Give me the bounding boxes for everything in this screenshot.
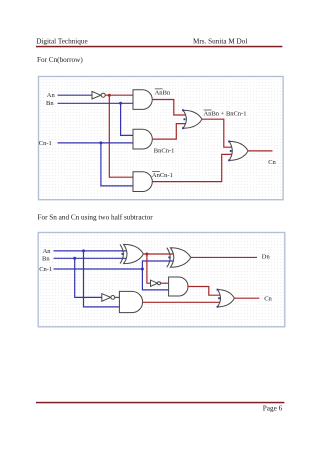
junction on Cn-1 net	[141, 268, 144, 271]
inverter U1	[92, 91, 105, 99]
svg-text:For Sn and Cn using two half s: For Sn and Cn using two half subtractor	[38, 214, 154, 222]
pin marks OR2	[228, 141, 230, 143]
footer rule	[36, 402, 284, 404]
svg-text:Cn-1: Cn-1	[39, 266, 52, 273]
svg-text:AnBn: AnBn	[155, 90, 171, 97]
junction on An net	[82, 249, 85, 252]
label AnBn	[155, 89, 171, 97]
wire U2 out to AND4	[115, 296, 120, 298]
AND gate G9	[169, 277, 188, 296]
svg-text:Bn: Bn	[46, 100, 54, 107]
svg-text:Bn: Bn	[42, 255, 50, 262]
wire XOR1 branch to inverter U3	[147, 254, 151, 283]
wire Bn branch to inverter U2	[75, 258, 102, 297]
junction on Bn net	[73, 257, 76, 260]
wire G8 out to OR3 bottom	[143, 301, 222, 303]
AND gate G1	[133, 90, 152, 110]
wire Bn to AND1	[58, 102, 134, 104]
wire XOR1 out to XOR2	[143, 253, 174, 255]
svg-text:Cn: Cn	[264, 295, 272, 302]
wire G2 out to OR1	[152, 124, 188, 140]
wire Cn-1 trunk	[54, 268, 143, 270]
wire Bn to XOR1	[54, 257, 128, 259]
wire Bn branch to AND2	[121, 103, 133, 135]
junction on XOR1 out	[145, 253, 148, 256]
wire Cn-1 branch to XOR2	[142, 261, 174, 269]
wire G9 out to OR3 top	[188, 287, 222, 296]
OR gate G10	[218, 290, 235, 307]
wire Cn output	[248, 150, 272, 152]
pin marks OR3	[217, 289, 219, 291]
svg-text:Cn: Cn	[268, 159, 276, 166]
wire Cn-1 branch to AND3	[101, 143, 133, 186]
wire Dn output	[191, 256, 257, 258]
wire G3 out to OR2 bottom	[152, 154, 233, 181]
wire Cn-1 to AND2	[58, 142, 134, 144]
XOR gate G6	[120, 244, 143, 263]
svg-text:An: An	[43, 248, 52, 255]
wire OR1 out to OR2 top	[202, 119, 233, 147]
wire An branch to AND4	[84, 251, 120, 307]
svg-text:Digital Technique: Digital Technique	[36, 37, 87, 45]
svg-text:Dn: Dn	[262, 253, 271, 260]
svg-text:Mrs. Sunita M Dol: Mrs. Sunita M Dol	[193, 37, 247, 45]
wire NOT-An branch down to AND3	[109, 95, 133, 177]
XOR gate G7	[167, 248, 191, 268]
svg-text:BnCn-1: BnCn-1	[154, 147, 175, 154]
OR gate G4	[183, 110, 202, 128]
svg-text:An: An	[47, 92, 56, 99]
wire Cn-1 branch to AND5	[142, 269, 168, 290]
label AnCn-1	[152, 172, 173, 180]
AND gate G8	[119, 291, 142, 312]
svg-text:For Cn(borrow): For Cn(borrow)	[37, 56, 83, 64]
junction on NOT-An net	[108, 94, 111, 97]
svg-text:Page 6: Page 6	[263, 405, 283, 413]
AND gate G2	[133, 129, 152, 149]
wire U3 out to AND5	[161, 282, 169, 284]
wire An to inverter	[58, 94, 93, 96]
junction on Cn-1 net	[99, 141, 102, 144]
wire G1 out to OR1	[152, 100, 188, 116]
inverter U3	[151, 280, 161, 286]
svg-text:AnBn + BnCn-1: AnBn + BnCn-1	[204, 111, 247, 118]
box 2 frame	[38, 233, 285, 327]
pin marks OR1	[182, 109, 184, 111]
label AnBn + BnCn-1	[204, 110, 247, 118]
junction on Bn net	[119, 102, 122, 105]
wire Cn output	[234, 297, 259, 299]
header rule	[36, 46, 282, 48]
svg-text:Cn-1: Cn-1	[39, 140, 52, 147]
svg-text:AnCn-1: AnCn-1	[152, 172, 173, 179]
wire inverter out to AND1	[105, 94, 133, 96]
box 1 frame	[39, 77, 284, 200]
inverter U2	[102, 294, 115, 302]
AND gate G3	[133, 172, 152, 192]
OR gate G5	[229, 141, 248, 160]
wire An to XOR1	[54, 250, 128, 252]
